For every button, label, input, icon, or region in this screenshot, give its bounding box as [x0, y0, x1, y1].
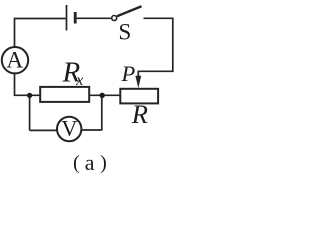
svg-text:V: V [61, 116, 77, 141]
svg-text:x: x [75, 72, 83, 89]
svg-text:P: P [121, 61, 136, 86]
svg-text:A: A [6, 48, 23, 74]
svg-text:a: a [85, 150, 95, 175]
svg-text:R: R [131, 99, 148, 129]
svg-text:): ) [100, 152, 107, 174]
svg-text:(: ( [73, 152, 80, 174]
svg-text:S: S [118, 19, 131, 45]
